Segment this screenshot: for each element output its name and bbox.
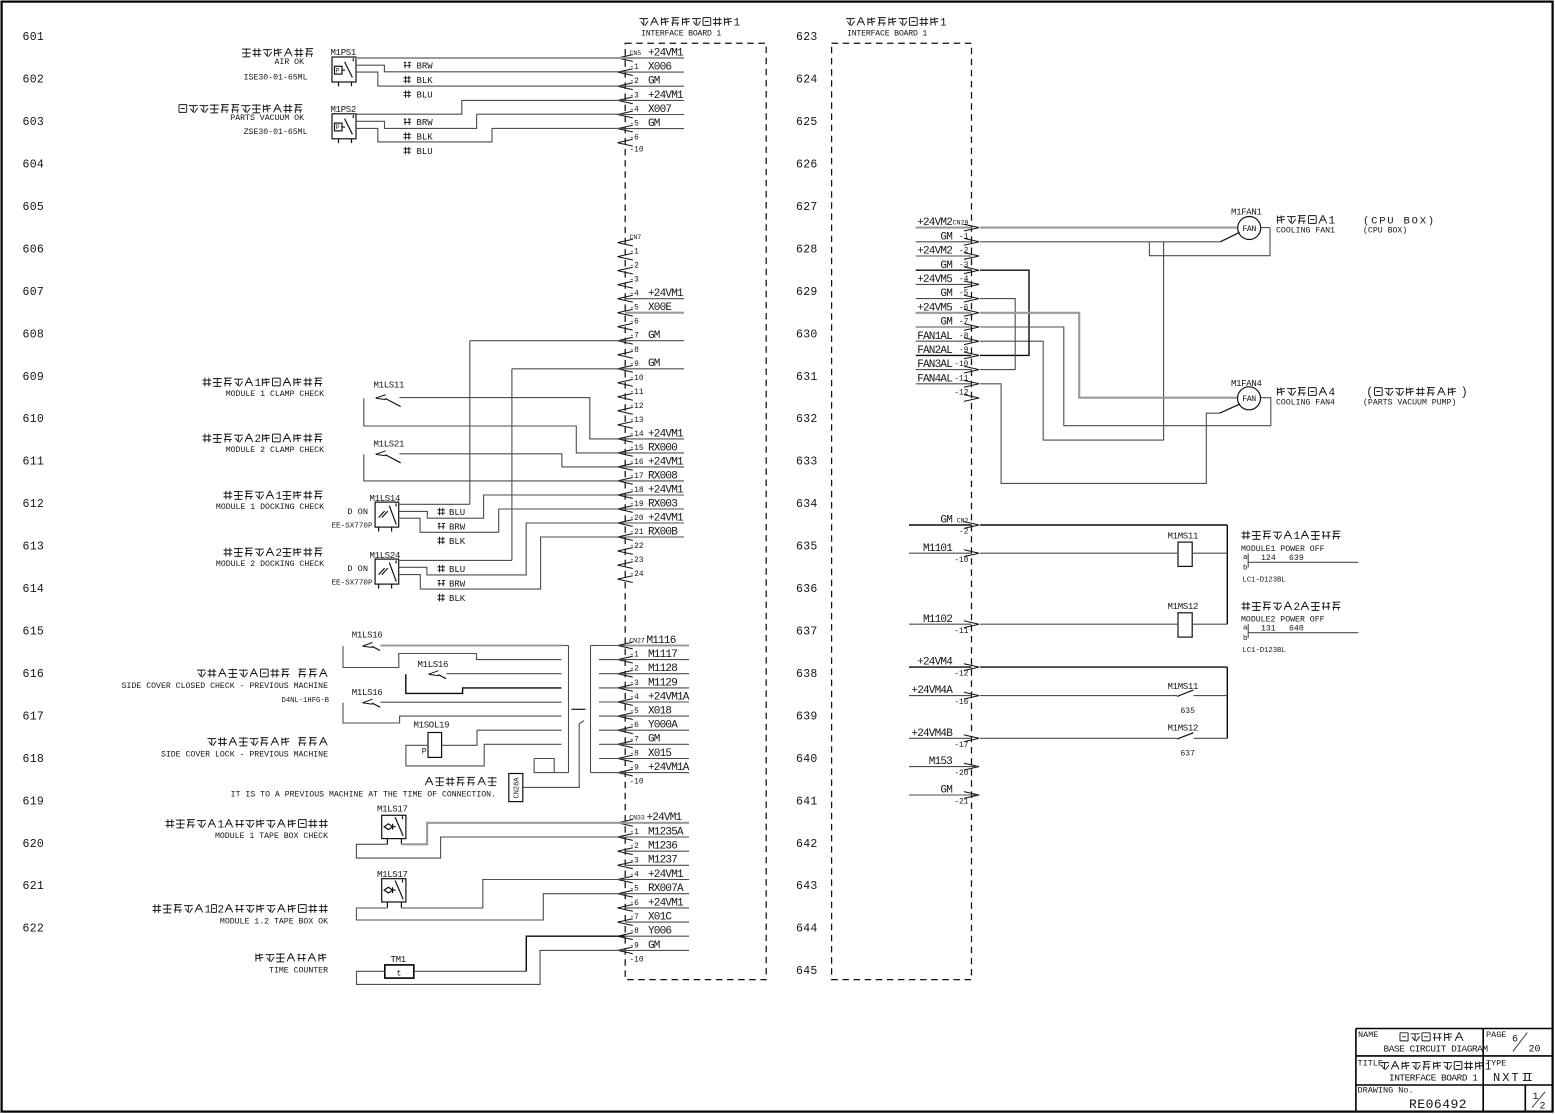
svg-text:618: 618 <box>23 753 45 766</box>
svg-text:631: 631 <box>796 371 818 384</box>
svg-text:-21: -21 <box>630 529 644 537</box>
svg-text:637: 637 <box>1181 750 1196 759</box>
svg-text:601: 601 <box>23 31 45 44</box>
svg-text:AIR OK: AIR OK <box>275 58 305 67</box>
svg-text:628: 628 <box>796 243 818 256</box>
svg-text:MODULE 1 DOCKING CHECK: MODULE 1 DOCKING CHECK <box>216 503 324 512</box>
svg-text:TM1: TM1 <box>391 955 406 965</box>
svg-text:-2: -2 <box>630 78 640 86</box>
svg-text:-9: -9 <box>630 942 640 950</box>
svg-text:P: P <box>336 124 340 131</box>
svg-text:-10: -10 <box>630 956 644 964</box>
svg-text:-1: -1 <box>630 64 640 72</box>
svg-text:1: 1 <box>205 905 212 917</box>
svg-text:613: 613 <box>23 541 45 554</box>
svg-text:-2: -2 <box>630 263 640 271</box>
svg-text:D4NL-1HFG-B: D4NL-1HFG-B <box>282 697 330 705</box>
svg-text:-4: -4 <box>630 291 640 299</box>
svg-text:-4: -4 <box>959 276 969 284</box>
svg-text:6: 6 <box>1512 1035 1518 1046</box>
svg-text:-10: -10 <box>630 779 644 787</box>
svg-text:626: 626 <box>796 159 818 172</box>
svg-text:TITLE: TITLE <box>1358 1059 1384 1069</box>
svg-text:IT IS TO A PREVIOUS MACHINE AT: IT IS TO A PREVIOUS MACHINE AT THE TIME … <box>231 791 496 800</box>
svg-text:ISE30-01-65ML: ISE30-01-65ML <box>244 73 308 82</box>
svg-text:-14: -14 <box>630 431 644 439</box>
svg-text:605: 605 <box>23 201 45 214</box>
svg-text:640: 640 <box>796 753 818 766</box>
svg-text:(CPU BOX): (CPU BOX) <box>1363 225 1407 235</box>
svg-text:P: P <box>336 67 340 74</box>
svg-text:-15: -15 <box>630 445 644 453</box>
svg-text:-3: -3 <box>630 277 640 285</box>
svg-text:632: 632 <box>796 413 818 426</box>
svg-text:-6: -6 <box>630 722 640 730</box>
svg-text:COOLING FAN4: COOLING FAN4 <box>1276 398 1335 407</box>
svg-text:607: 607 <box>23 286 45 299</box>
svg-text:TYPE: TYPE <box>1486 1059 1506 1069</box>
svg-text:-12: -12 <box>630 403 644 411</box>
svg-text:610: 610 <box>23 413 45 426</box>
svg-text:INTERFACE BOARD 1: INTERFACE BOARD 1 <box>847 30 927 39</box>
svg-text:a: a <box>1243 554 1248 562</box>
svg-text:644: 644 <box>796 923 818 936</box>
svg-text:637: 637 <box>796 626 818 639</box>
svg-text:PARTS VACUUM OK: PARTS VACUUM OK <box>230 114 304 123</box>
svg-text:602: 602 <box>23 74 45 87</box>
svg-text:NAME: NAME <box>1358 1030 1378 1040</box>
svg-text:-2: -2 <box>630 666 640 674</box>
svg-text:1: 1 <box>940 18 947 30</box>
svg-text:BASE CIRCUIT DIAGRAM: BASE CIRCUIT DIAGRAM <box>1384 1044 1489 1055</box>
svg-text:-21: -21 <box>954 799 968 807</box>
svg-text:2: 2 <box>218 905 225 917</box>
svg-text:638: 638 <box>796 668 818 681</box>
svg-text:614: 614 <box>23 583 45 596</box>
svg-text:611: 611 <box>23 456 45 469</box>
svg-text:-17: -17 <box>630 473 644 481</box>
svg-text:635: 635 <box>1181 707 1196 716</box>
svg-text:-6: -6 <box>630 319 640 327</box>
svg-text:-4: -4 <box>630 694 640 702</box>
svg-text:M1FAN4: M1FAN4 <box>1231 379 1262 389</box>
svg-text:645: 645 <box>796 965 818 978</box>
svg-text:INTERFACE BOARD 1: INTERFACE BOARD 1 <box>641 30 721 39</box>
svg-text:MODULE2 POWER OFF: MODULE2 POWER OFF <box>1241 616 1325 625</box>
svg-text:2: 2 <box>276 548 283 560</box>
svg-text:-3: -3 <box>630 92 640 100</box>
svg-text:636: 636 <box>796 583 818 596</box>
svg-text:625: 625 <box>796 116 818 129</box>
svg-text:MODULE 1 CLAMP CHECK: MODULE 1 CLAMP CHECK <box>226 390 324 399</box>
svg-text:1: 1 <box>218 820 225 832</box>
svg-text:SIDE COVER LOCK - PREVIOUS MAC: SIDE COVER LOCK - PREVIOUS MACHINE <box>161 751 328 760</box>
svg-text:CN2: CN2 <box>957 518 969 525</box>
svg-text:CN33: CN33 <box>629 815 645 822</box>
svg-text:-1: -1 <box>959 233 969 241</box>
svg-text:-2: -2 <box>630 843 640 851</box>
svg-text:1: 1 <box>1294 531 1301 543</box>
svg-text:629: 629 <box>796 286 818 299</box>
svg-text:MODULE1 POWER OFF: MODULE1 POWER OFF <box>1241 545 1325 554</box>
svg-text:609: 609 <box>23 371 45 384</box>
svg-text:-17: -17 <box>954 742 968 750</box>
svg-text:-5: -5 <box>959 290 969 298</box>
svg-text:EE-SX770P: EE-SX770P <box>331 579 372 587</box>
svg-text:617: 617 <box>23 710 45 723</box>
svg-text:-24: -24 <box>630 571 644 579</box>
svg-text:M1LS16: M1LS16 <box>352 688 383 698</box>
svg-text:-23: -23 <box>630 557 644 565</box>
svg-text:ZSE30-01-65ML: ZSE30-01-65ML <box>244 128 308 137</box>
svg-text:M1MS12: M1MS12 <box>1168 602 1199 612</box>
svg-text:-11: -11 <box>954 375 968 383</box>
svg-text:603: 603 <box>23 116 45 129</box>
svg-text:622: 622 <box>23 923 45 936</box>
svg-text:MODULE 1.2 TAPE BOX OK: MODULE 1.2 TAPE BOX OK <box>220 918 328 927</box>
svg-text:-5: -5 <box>630 886 640 894</box>
svg-text:D ON: D ON <box>347 564 368 574</box>
svg-text:-5: -5 <box>630 305 640 313</box>
svg-text:MODULE 2 DOCKING CHECK: MODULE 2 DOCKING CHECK <box>216 560 324 569</box>
svg-text:LC1-D123BL: LC1-D123BL <box>1243 577 1286 585</box>
svg-text:-10: -10 <box>954 361 968 369</box>
svg-text:-4: -4 <box>630 107 640 115</box>
svg-text:M1LS11: M1LS11 <box>374 381 405 391</box>
svg-text:M1LS21: M1LS21 <box>374 440 405 450</box>
svg-text:-1: -1 <box>630 652 640 660</box>
svg-text:-12: -12 <box>954 671 968 679</box>
svg-text:BLU: BLU <box>417 147 433 157</box>
svg-text:CN27: CN27 <box>629 637 645 644</box>
svg-text:b: b <box>1243 635 1248 643</box>
svg-text:-8: -8 <box>630 751 640 759</box>
svg-text:621: 621 <box>23 880 45 893</box>
svg-text:2: 2 <box>255 434 262 446</box>
svg-text:606: 606 <box>23 243 45 256</box>
svg-text:-2: -2 <box>959 248 969 256</box>
svg-text:-3: -3 <box>630 680 640 688</box>
svg-text:-5: -5 <box>630 708 640 716</box>
svg-text:-3: -3 <box>959 262 969 270</box>
svg-text:-13: -13 <box>630 417 644 425</box>
svg-text:-12: -12 <box>954 390 968 398</box>
svg-text:M1LS17: M1LS17 <box>377 805 408 815</box>
svg-text:BRW: BRW <box>417 61 434 71</box>
svg-text:-7: -7 <box>630 914 640 922</box>
svg-text:131: 131 <box>1261 625 1276 634</box>
svg-text:CN29: CN29 <box>953 220 969 227</box>
svg-text:TIME COUNTER: TIME COUNTER <box>269 967 328 976</box>
svg-text:M1MS11: M1MS11 <box>1168 532 1199 542</box>
svg-text:-8: -8 <box>630 347 640 355</box>
svg-text:-16: -16 <box>954 699 968 707</box>
svg-text:-16: -16 <box>630 459 644 467</box>
svg-text:MODULE 1 TAPE BOX CHECK: MODULE 1 TAPE BOX CHECK <box>215 832 328 841</box>
svg-text:-7: -7 <box>959 319 969 327</box>
svg-text:II: II <box>1522 1071 1532 1085</box>
svg-text:BRW: BRW <box>449 579 466 589</box>
svg-text:635: 635 <box>796 541 818 554</box>
svg-text:-7: -7 <box>630 736 640 744</box>
svg-text:a: a <box>1243 625 1248 633</box>
svg-text:D ON: D ON <box>347 507 368 517</box>
svg-text:BRW: BRW <box>449 522 466 532</box>
svg-text:EE-SX770P: EE-SX770P <box>331 522 372 530</box>
svg-text:-7: -7 <box>630 333 640 341</box>
svg-text:b: b <box>1243 565 1248 573</box>
svg-text:-19: -19 <box>630 501 644 509</box>
svg-text:639: 639 <box>796 710 818 723</box>
svg-text:SIDE COVER CLOSED CHECK - PREV: SIDE COVER CLOSED CHECK - PREVIOUS MACHI… <box>122 682 328 691</box>
svg-text:642: 642 <box>796 838 818 851</box>
svg-text:633: 633 <box>796 456 818 469</box>
svg-text:-9: -9 <box>959 347 969 355</box>
svg-text:-9: -9 <box>630 361 640 369</box>
svg-text:643: 643 <box>796 880 818 893</box>
svg-text:-11: -11 <box>630 389 644 397</box>
svg-text:612: 612 <box>23 498 45 511</box>
svg-text:-1: -1 <box>630 829 640 837</box>
svg-text:RE06492: RE06492 <box>1409 1097 1467 1112</box>
svg-text:1: 1 <box>276 491 283 503</box>
svg-text:-2: -2 <box>959 529 969 537</box>
svg-text:P: P <box>422 748 427 757</box>
svg-text:CN5: CN5 <box>630 50 642 57</box>
svg-text:-18: -18 <box>630 487 644 495</box>
svg-text:-8: -8 <box>630 928 640 936</box>
svg-text:M1LS16: M1LS16 <box>352 630 383 640</box>
svg-text:-22: -22 <box>630 543 644 551</box>
svg-text:-3: -3 <box>630 857 640 865</box>
svg-text:608: 608 <box>23 328 45 341</box>
svg-text:-8: -8 <box>959 333 969 341</box>
svg-text:BLK: BLK <box>417 133 434 143</box>
svg-text:627: 627 <box>796 201 818 214</box>
svg-text:-10: -10 <box>630 147 644 155</box>
svg-text:M1LS16: M1LS16 <box>418 660 449 670</box>
svg-text:-5: -5 <box>630 121 640 129</box>
svg-text:624: 624 <box>796 74 818 87</box>
svg-text:COOLING FAN1: COOLING FAN1 <box>1276 226 1335 235</box>
svg-text:639: 639 <box>1289 554 1304 563</box>
svg-text:-9: -9 <box>630 765 640 773</box>
svg-text:t: t <box>397 970 402 979</box>
svg-text:630: 630 <box>796 328 818 341</box>
svg-text:MODULE 2 CLAMP CHECK: MODULE 2 CLAMP CHECK <box>226 446 324 455</box>
svg-text:20: 20 <box>1529 1045 1541 1056</box>
svg-text:NXT: NXT <box>1493 1071 1521 1085</box>
svg-text:640: 640 <box>1289 625 1304 634</box>
svg-text:620: 620 <box>23 838 45 851</box>
svg-text:-10: -10 <box>630 375 644 383</box>
svg-text:PAGE: PAGE <box>1486 1030 1506 1040</box>
svg-text:-6: -6 <box>630 135 640 143</box>
svg-text:M1SOL19: M1SOL19 <box>414 721 450 731</box>
svg-text:616: 616 <box>23 668 45 681</box>
svg-text:BLU: BLU <box>449 565 465 575</box>
svg-text:-20: -20 <box>630 515 644 523</box>
svg-text:2: 2 <box>1540 1102 1546 1113</box>
svg-text:BRW: BRW <box>417 118 434 128</box>
svg-text:(PARTS VACUUM PUMP): (PARTS VACUUM PUMP) <box>1363 397 1456 407</box>
svg-text:INTERFACE BOARD 1: INTERFACE BOARD 1 <box>1389 1073 1478 1084</box>
svg-text:604: 604 <box>23 159 45 172</box>
svg-text:BLU: BLU <box>417 91 433 101</box>
svg-text:2: 2 <box>1294 602 1301 614</box>
svg-text:-10: -10 <box>954 557 968 565</box>
svg-text:BLK: BLK <box>449 537 466 547</box>
svg-text:-6: -6 <box>959 304 969 312</box>
svg-text:FAN: FAN <box>1242 395 1256 404</box>
svg-text:-20: -20 <box>954 770 968 778</box>
svg-text:LC1-D123BL: LC1-D123BL <box>1243 647 1286 655</box>
svg-text:): ) <box>1461 387 1468 400</box>
svg-text:634: 634 <box>796 498 818 511</box>
svg-text:-1: -1 <box>630 249 640 257</box>
svg-text:623: 623 <box>796 31 818 44</box>
svg-text:-4: -4 <box>630 872 640 880</box>
svg-text:1: 1 <box>734 18 741 30</box>
svg-text:FAN: FAN <box>1242 225 1256 234</box>
svg-text:619: 619 <box>23 795 45 808</box>
svg-text:-11: -11 <box>954 628 968 636</box>
svg-text:M1MS12: M1MS12 <box>1168 724 1199 734</box>
svg-text:CN28A: CN28A <box>514 777 522 799</box>
svg-text:M1FAN1: M1FAN1 <box>1231 208 1262 218</box>
svg-text:DRAWING No.: DRAWING No. <box>1358 1086 1414 1096</box>
svg-text:-6: -6 <box>630 900 640 908</box>
svg-text:641: 641 <box>796 795 818 808</box>
svg-text:BLK: BLK <box>449 594 466 604</box>
svg-text:615: 615 <box>23 626 45 639</box>
svg-text:BLU: BLU <box>449 508 465 518</box>
svg-text:124: 124 <box>1261 554 1276 563</box>
svg-text:M1MS11: M1MS11 <box>1168 682 1199 692</box>
svg-text:BLK: BLK <box>417 76 434 86</box>
svg-text:1: 1 <box>255 378 262 390</box>
